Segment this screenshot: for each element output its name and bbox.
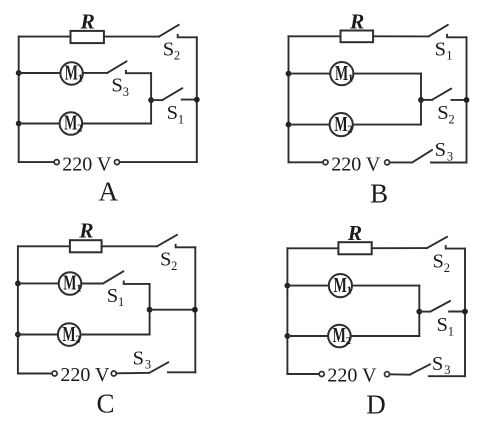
svg-text:2: 2	[174, 48, 180, 62]
wire: D right rail	[464, 249, 466, 377]
switch S3 blade (C)	[149, 362, 168, 373]
svg-text:3: 3	[123, 85, 129, 99]
motor M1 (A)	[60, 62, 82, 84]
wire: A M2 to junction vertical	[82, 123, 151, 125]
svg-text:S: S	[437, 314, 448, 336]
svg-text:R: R	[80, 9, 95, 33]
svg-text:3: 3	[447, 149, 453, 163]
wire: A M2 branch left	[19, 123, 60, 125]
switch S2 blade (D)	[427, 237, 447, 248]
wire: C vertical from S1 down to M2	[149, 284, 151, 335]
terminal: A supply left	[54, 160, 59, 165]
svg-text:M: M	[335, 61, 348, 85]
svg-text:3: 3	[145, 358, 151, 372]
resistor R (C)	[70, 240, 102, 252]
node dot: A left rail / M1 branch	[16, 70, 22, 76]
wire: B right rail	[466, 37, 468, 162]
switch S2 right contact (B)	[452, 99, 467, 101]
svg-text:S: S	[433, 251, 444, 273]
wire: A left rail	[18, 37, 20, 163]
wire: C bottom left	[18, 373, 52, 375]
terminal: B supply right	[385, 160, 390, 165]
wire: C M1 branch left	[18, 282, 59, 284]
svg-text:S: S	[437, 102, 448, 124]
wire: D resistor to switch S2	[372, 247, 427, 249]
motor M1 (C)	[59, 272, 82, 295]
svg-text:M: M	[62, 322, 75, 346]
wire: B M1 to junction vertical	[353, 73, 421, 75]
svg-text:A: A	[99, 177, 119, 207]
node dot: D junction S1	[416, 309, 422, 315]
switch S2 right contact (D)	[446, 246, 465, 249]
node dot: D left rail / M1 branch	[285, 283, 291, 289]
wire: B left rail	[288, 36, 290, 162]
svg-text:S: S	[432, 353, 443, 375]
wire: C top, left rail to resistor	[18, 245, 70, 247]
wire: A bottom right	[120, 161, 197, 163]
svg-text:S: S	[435, 39, 446, 61]
wire: A vertical from S3 down to junction	[150, 73, 152, 123]
switch S2 blade (A)	[159, 25, 179, 37]
wire: B M2 branch left	[289, 124, 330, 126]
motor M2 (B)	[330, 113, 353, 136]
svg-text:S: S	[107, 285, 118, 307]
node dot: A junction S3/S1/M2	[148, 97, 154, 103]
node dot: B left rail / M2 branch	[286, 122, 292, 128]
svg-text:D: D	[366, 389, 386, 419]
svg-text:M: M	[334, 273, 347, 297]
wire: B vertical M1 to M2	[420, 74, 422, 125]
svg-text:M: M	[334, 112, 347, 136]
node dot: C left rail / M2 branch	[15, 332, 21, 338]
switch S3 right contact (B)	[431, 162, 467, 164]
svg-text:2: 2	[75, 335, 80, 346]
node dot: A left rail / M2 branch	[16, 121, 22, 127]
node dot: D left rail / M2 branch	[285, 333, 291, 339]
svg-text:2: 2	[347, 125, 352, 136]
svg-text:2: 2	[346, 336, 351, 347]
svg-text:3: 3	[444, 363, 450, 377]
wire: A resistor to switch S2	[104, 36, 159, 38]
terminal: C supply left	[52, 371, 57, 376]
svg-text:M: M	[64, 111, 77, 135]
svg-text:M: M	[333, 323, 346, 347]
svg-text:R: R	[349, 9, 364, 33]
switch S3 blade (A)	[107, 61, 126, 73]
wire: D vertical M1 to M2	[418, 286, 420, 336]
switch S3 blade (B)	[412, 150, 432, 163]
switch S1 right contact (C)	[124, 281, 150, 284]
wire: B bottom left	[289, 161, 324, 163]
svg-text:M: M	[65, 61, 78, 85]
svg-text:1: 1	[347, 286, 352, 297]
svg-text:2: 2	[449, 113, 455, 127]
svg-text:R: R	[78, 219, 93, 243]
switch S1 blade (B)	[429, 25, 448, 37]
switch S1 blade (A)	[162, 88, 182, 100]
wire: D M1 to junction vertical	[352, 285, 419, 287]
svg-text:1: 1	[78, 74, 83, 85]
wire: B supply to switch S3	[390, 161, 413, 163]
wire: B junction to switch S2	[421, 99, 432, 101]
wire: C resistor to switch S2	[102, 245, 157, 247]
wire: C M1 to switch S1	[81, 283, 103, 285]
terminal: D supply right	[385, 372, 390, 377]
wire: D top, left rail to resistor	[287, 247, 338, 249]
wire: C left rail	[17, 246, 19, 373]
resistor R (B)	[341, 31, 374, 43]
switch S3 right contact (D)	[429, 375, 465, 377]
svg-text:S: S	[167, 102, 178, 124]
motor M2 (C)	[58, 323, 81, 346]
svg-text:1: 1	[446, 48, 452, 62]
svg-text:S: S	[163, 39, 174, 61]
svg-text:R: R	[347, 221, 362, 245]
svg-text:220 V: 220 V	[331, 154, 381, 176]
switch S3 right contact (A)	[126, 71, 151, 73]
svg-text:M: M	[63, 271, 76, 295]
wire: D M2 branch left	[287, 335, 328, 337]
svg-text:1: 1	[348, 74, 353, 85]
svg-text:S: S	[133, 347, 144, 369]
svg-text:1: 1	[76, 284, 81, 295]
wire: D bottom left	[287, 373, 319, 375]
wire: A junction to switch S1	[151, 99, 162, 101]
node dot: B junction S2	[418, 97, 424, 103]
switch S1 right contact (B)	[447, 35, 466, 38]
svg-text:220 V: 220 V	[60, 364, 110, 386]
wire: D M1 branch left	[287, 285, 328, 287]
wire: B M2 to junction vertical	[353, 124, 421, 126]
switch S1 right contact (A)	[182, 99, 197, 101]
switch S1 blade (C)	[103, 271, 123, 283]
wire: B top, left rail to resistor	[289, 35, 341, 37]
node dot: C link on right rail	[192, 307, 198, 313]
svg-text:2: 2	[77, 124, 82, 135]
switch S3 blade (D)	[410, 364, 430, 374]
svg-text:1: 1	[178, 113, 184, 127]
svg-text:1: 1	[118, 295, 124, 309]
motor M2 (A)	[60, 112, 83, 135]
switch S2 blade (C)	[157, 235, 177, 247]
svg-text:S: S	[111, 75, 122, 97]
wire: C junction link to right rail	[150, 309, 195, 311]
wire: A M1 to switch S3	[83, 72, 107, 74]
wire: D M2 to vertical	[351, 335, 420, 337]
switch S2 right contact (A)	[178, 35, 197, 38]
wire: A right rail	[196, 37, 198, 162]
svg-text:C: C	[97, 388, 115, 418]
node dot: B S2 on right rail	[464, 97, 470, 103]
wire: D supply to switch S3	[390, 373, 410, 375]
wire: A bottom left	[19, 161, 55, 163]
svg-text:S: S	[435, 139, 446, 161]
terminal: D supply left	[319, 372, 324, 377]
terminal: A supply right	[115, 160, 120, 165]
svg-text:2: 2	[171, 259, 177, 273]
resistor R (D)	[338, 242, 371, 254]
wire: C M2 branch left	[18, 334, 58, 336]
node dot: A S1 on right rail	[194, 97, 200, 103]
wire: A M1 branch left	[19, 72, 61, 74]
terminal: B supply left	[323, 160, 328, 165]
wire: A top, left rail to resistor	[19, 36, 71, 38]
wire: B M1 branch left	[289, 73, 331, 75]
motor M2 (D)	[328, 325, 351, 348]
wire: D left rail	[286, 248, 288, 374]
resistor R (A)	[71, 31, 104, 43]
node dot: C junction on vertical	[147, 307, 153, 313]
wire: B resistor to switch S1	[373, 35, 429, 37]
wire: D junction to switch S1	[419, 311, 430, 313]
node dot: B left rail / M1 branch	[286, 71, 292, 77]
node dot: D S1 on right rail	[462, 309, 468, 315]
switch S3 right contact (C)	[168, 371, 195, 373]
motor M1 (D)	[329, 274, 352, 297]
switch S2 blade (B)	[432, 89, 451, 100]
svg-text:B: B	[370, 178, 388, 208]
node dot: C left rail / M1 branch	[15, 281, 21, 287]
switch S1 right contact (D)	[449, 311, 465, 313]
wire: C M2 to vertical	[81, 334, 150, 336]
svg-text:S: S	[160, 249, 171, 271]
svg-text:2: 2	[444, 261, 450, 275]
motor M1 (B)	[330, 62, 353, 85]
terminal: C supply right	[111, 371, 116, 376]
switch S2 right contact (C)	[176, 245, 196, 248]
wire: C right rail	[194, 247, 196, 372]
svg-text:220 V: 220 V	[62, 153, 112, 175]
svg-text:220 V: 220 V	[327, 365, 377, 387]
wire: C supply to switch S3	[116, 372, 149, 375]
svg-text:1: 1	[448, 325, 454, 339]
switch S1 blade (D)	[430, 301, 450, 312]
